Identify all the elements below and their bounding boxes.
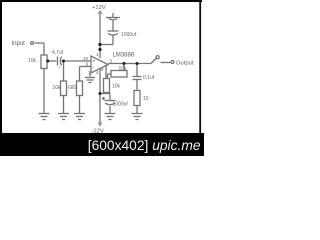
svg-text:10: 10 xyxy=(83,56,89,61)
svg-text:Output: Output xyxy=(176,61,194,67)
svg-text:LM3886: LM3886 xyxy=(113,53,135,59)
svg-text:Input: Input xyxy=(12,41,26,47)
svg-text:10k: 10k xyxy=(28,58,37,64)
svg-text:[600x402] upic.me: [600x402] upic.me xyxy=(88,138,201,153)
svg-text:680: 680 xyxy=(68,85,77,91)
svg-text:+12V: +12V xyxy=(92,5,106,11)
svg-text:10k: 10k xyxy=(119,66,128,72)
svg-text:+: + xyxy=(93,59,96,65)
svg-text:1000uf: 1000uf xyxy=(121,32,137,38)
svg-text:4.7uf: 4.7uf xyxy=(52,50,64,56)
svg-text:0.1uf: 0.1uf xyxy=(143,75,155,81)
svg-text:10k: 10k xyxy=(53,85,62,91)
svg-text:10: 10 xyxy=(143,96,149,102)
svg-text:1000uf: 1000uf xyxy=(113,102,129,108)
svg-text:10k: 10k xyxy=(112,84,121,90)
